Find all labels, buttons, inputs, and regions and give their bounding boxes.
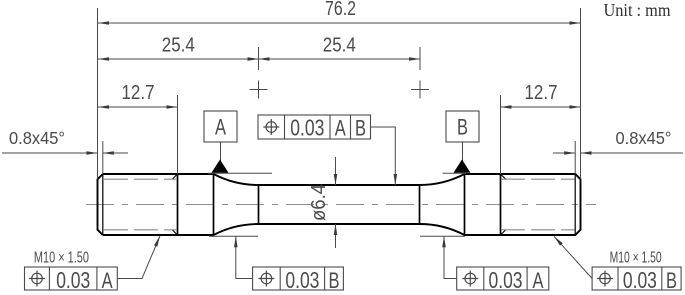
svg-text:A: A [102, 268, 113, 293]
extension line right end face [580, 8, 582, 179]
feature control frame top (position 0.03 A B) [258, 115, 371, 141]
datum B box [446, 111, 479, 142]
svg-text:M10 × 1.50: M10 × 1.50 [34, 250, 89, 267]
svg-text:B: B [329, 268, 340, 293]
fillet-shoulder tangent line right [464, 174, 466, 235]
datum A stem [220, 142, 222, 161]
dimension 76.2 line [98, 22, 581, 24]
svg-text:76.2: 76.2 [325, 0, 356, 20]
svg-text:0.8x45°: 0.8x45° [9, 128, 65, 148]
svg-text:M10 × 1.50: M10 × 1.50 [610, 250, 662, 267]
svg-text:B: B [457, 115, 468, 140]
feature control frame bottom-center-left (position 0.03 B) [253, 267, 344, 293]
tick gauge right [419, 47, 421, 70]
svg-text:A: A [215, 115, 226, 140]
svg-text:ø6.4: ø6.4 [308, 184, 330, 221]
leader from bottom-left FCF [117, 236, 160, 279]
specimen outline [98, 174, 581, 235]
svg-text:B: B [666, 268, 677, 293]
chamfer dimension left line [2, 152, 98, 154]
thread runout line right [500, 174, 502, 235]
svg-text:Unit : mm: Unit : mm [604, 0, 671, 20]
svg-text:0.03: 0.03 [623, 267, 657, 293]
thread runout chamfer ticks right [501, 174, 506, 235]
thread runout chamfer ticks left [172, 174, 177, 235]
svg-text:25.4: 25.4 [323, 35, 356, 57]
surface extension bottom left [209, 235, 258, 237]
svg-text:0.03: 0.03 [285, 267, 319, 293]
surface extension top right [443, 172, 467, 174]
dimension 25.4 right line [259, 58, 421, 60]
thread runout line left [177, 174, 179, 235]
leader from top FCF [371, 127, 396, 185]
svg-text:B: B [355, 116, 366, 141]
svg-text:12.7: 12.7 [525, 82, 558, 104]
tick gauge left [258, 47, 260, 70]
feature control frame bottom-left (position 0.03 A) [25, 267, 118, 293]
shoulder-fillet tangent line left [213, 174, 215, 235]
chamfer dimension right line [581, 152, 684, 154]
gauge tangent line left [258, 185, 260, 224]
svg-text:12.7: 12.7 [122, 82, 155, 104]
diameter 6.4 dimension lines [335, 157, 337, 185]
datum A triangle [212, 160, 229, 173]
svg-text:0.03: 0.03 [489, 267, 523, 293]
leader from bottom-center-right FCF [444, 236, 457, 278]
extension line right chamfer [574, 141, 576, 174]
thread minor diameter dashed lines right [501, 179, 575, 230]
datum B stem [462, 142, 464, 161]
fillet center mark left [250, 81, 268, 99]
centerline [86, 204, 596, 206]
svg-text:A: A [335, 116, 346, 141]
datum A box [204, 111, 237, 142]
thread minor diameter dashed lines left [104, 179, 177, 230]
dimension 12.7 right line [501, 106, 581, 108]
surface extension bottom right [420, 235, 465, 237]
fillet center mark right [411, 81, 429, 99]
svg-text:25.4: 25.4 [162, 35, 195, 57]
gauge tangent line right [419, 185, 421, 224]
svg-text:0.03: 0.03 [56, 267, 90, 293]
leader from bottom-center-left FCF [236, 236, 253, 278]
svg-text:A: A [533, 268, 544, 293]
svg-text:0.8x45°: 0.8x45° [616, 128, 672, 148]
dimension 25.4 left line [98, 58, 259, 60]
feature control frame bottom-right (position 0.03 B) [592, 267, 681, 293]
extension line left thread end [177, 95, 179, 174]
chamfer edge line left [102, 174, 104, 235]
chamfer edge line right [574, 174, 576, 235]
datum B triangle [454, 160, 471, 173]
leader from bottom-right FCF [554, 236, 592, 278]
svg-text:0.03: 0.03 [290, 115, 324, 141]
extension line left chamfer [102, 141, 104, 174]
dimension 12.7 left line [98, 106, 178, 108]
feature control frame bottom-center-right (position 0.03 A) [457, 267, 549, 293]
extension line right thread end [500, 95, 502, 174]
extension line left end face [97, 8, 99, 179]
surface extension top left [208, 172, 272, 174]
